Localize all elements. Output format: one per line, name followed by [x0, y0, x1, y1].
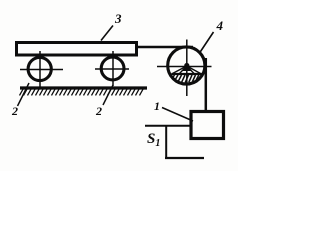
label 4 — [217, 19, 224, 32]
ground line — [20, 86, 147, 89]
rope down from pulley to weight — [205, 58, 208, 111]
S1 bottom line — [165, 157, 204, 159]
pulley 4 : rim — [168, 47, 205, 84]
roller (right wheel) 2 : rim — [101, 57, 124, 80]
label 1 — [154, 100, 160, 112]
roller (left wheel) 2 : crosshair — [20, 69, 63, 71]
leader line for right label 2 — [103, 85, 113, 105]
pulley 4 : hub wedge — [183, 65, 192, 72]
pulley 4 : support fan spokes — [173, 66, 187, 74]
S1 reference line (top) — [145, 125, 190, 127]
leader line for label 1 — [162, 108, 193, 122]
pulley 4 : crosshair — [157, 66, 212, 68]
weight block 1 — [191, 112, 224, 139]
ground hatching — [20, 89, 144, 95]
pulley 4 : support chord — [172, 73, 202, 75]
leader line for label 4 — [200, 32, 214, 53]
roller (left wheel) 2 : rim — [28, 57, 51, 80]
rope from plank to pulley — [138, 46, 193, 48]
label 2 (right) — [96, 105, 102, 117]
plank 3 (cart board) — [17, 43, 137, 56]
leader line for left label 2 — [18, 83, 30, 106]
pulley 4 : hub — [184, 63, 189, 68]
label 2 (left) — [12, 105, 18, 117]
label S1 — [147, 132, 160, 149]
label 3 — [115, 12, 122, 25]
leader line for label 3 — [101, 26, 113, 41]
roller (right wheel) 2 : crosshair — [95, 68, 129, 70]
pulley 4 : support hatch inside rim bottom — [173, 75, 202, 83]
S1 vertical line — [165, 125, 167, 159]
